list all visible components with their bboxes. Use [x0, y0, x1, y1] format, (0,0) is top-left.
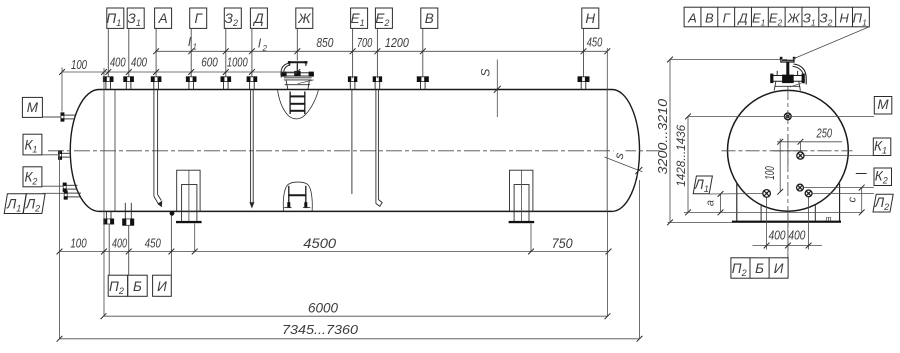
- nozzle A: [151, 76, 162, 89]
- extension for support left: [194, 224, 196, 252]
- nozzle Z1: [123, 76, 134, 89]
- svg-text:Ж: Ж: [297, 11, 312, 26]
- svg-text:100: 100: [70, 235, 87, 250]
- end view vertical centerline: [787, 62, 789, 258]
- label box G: [190, 8, 207, 77]
- svg-text:1200: 1200: [385, 35, 410, 50]
- nozzle N: [578, 76, 590, 89]
- svg-text:400: 400: [110, 54, 126, 69]
- svg-text:100: 100: [762, 166, 777, 180]
- svg-text:700: 700: [357, 35, 373, 50]
- leader L1 L2: [43, 192, 65, 194]
- leader K2: [42, 185, 63, 187]
- label box V: [421, 8, 438, 77]
- label box L2: [23, 194, 45, 214]
- nozzle E2: [373, 76, 382, 89]
- svg-text:400: 400: [131, 54, 148, 69]
- dimension 3200...3210: [656, 57, 673, 226]
- nozzle M (end view): [784, 113, 791, 120]
- svg-text:Д: Д: [736, 10, 747, 25]
- svg-text:И: И: [774, 261, 784, 276]
- nozzle P2: [103, 212, 114, 225]
- svg-text:В: В: [425, 11, 434, 26]
- svg-text:400: 400: [769, 228, 786, 243]
- dimension line row y=72: [59, 54, 300, 75]
- nozzle L2 (end view): [805, 190, 812, 197]
- head thickness callout s: [605, 146, 643, 174]
- extension tank bottom level (end view): [684, 211, 862, 213]
- leader K1: [42, 154, 59, 156]
- leader K1 (end view): [804, 155, 873, 157]
- dimension 7345...7360: [57, 322, 643, 342]
- dimension c: [846, 185, 864, 216]
- extension x=59.5: [59, 150, 61, 339]
- extension baseplate bottom level: [668, 221, 733, 223]
- end view horizontal centerline: [722, 150, 853, 152]
- label box L1: [4, 194, 26, 214]
- extension x=639.5: [639, 180, 641, 339]
- svg-text:850: 850: [316, 35, 334, 50]
- svg-text:7345...7360: 7345...7360: [282, 322, 359, 337]
- svg-text:600: 600: [201, 54, 218, 69]
- extension line x=62: [61, 68, 63, 112]
- svg-text:400: 400: [112, 235, 128, 250]
- label box E1: [351, 8, 368, 78]
- label box D: [250, 8, 267, 77]
- dip pipe from nozzle E2: [376, 89, 382, 206]
- nozzle L: [64, 190, 81, 199]
- nozzle V: [417, 76, 429, 89]
- drain fitting I: [170, 211, 175, 216]
- dip pipe from nozzle A: [154, 89, 162, 206]
- svg-text:А: А: [158, 11, 168, 26]
- svg-text:c: c: [846, 197, 858, 203]
- label box B bottom: [128, 275, 148, 296]
- label box A: [155, 8, 172, 77]
- extension weld right lower: [607, 212, 609, 317]
- tank centerline: [48, 150, 660, 152]
- svg-text:a: a: [704, 200, 716, 206]
- dimension a: [704, 191, 723, 215]
- svg-text:Б: Б: [133, 279, 142, 294]
- svg-text:2: 2: [262, 44, 268, 53]
- nozzle P1: [103, 76, 114, 89]
- nozzle B (sump): [122, 203, 134, 226]
- leader L1 (end view): [710, 193, 762, 196]
- svg-text:l: l: [188, 35, 191, 49]
- label box Zh: [296, 8, 313, 61]
- svg-text:250: 250: [816, 125, 833, 140]
- leader M: [42, 116, 60, 118]
- nozzle Z2: [221, 76, 232, 89]
- svg-text:3200...3210: 3200...3210: [656, 99, 670, 175]
- nozzle D: [247, 76, 258, 89]
- label strip A V G D E1 E2 Zh Z1 Z2 N P1: [684, 7, 869, 27]
- leader K2 (end view): [804, 187, 874, 189]
- head weld seam right: [606, 90, 608, 212]
- shell thickness callout S: [478, 60, 501, 118]
- svg-text:М: М: [877, 97, 889, 112]
- svg-text:1000: 1000: [227, 54, 248, 69]
- svg-text:1428...1436: 1428...1436: [674, 124, 688, 186]
- dimension line row y=251.5: [57, 235, 612, 254]
- nozzle G: [186, 76, 197, 89]
- dimension 6000: [101, 301, 611, 320]
- solid center cross (end view): [787, 134, 789, 165]
- dimension 1428...1436: [674, 114, 691, 216]
- nozzle K2: [63, 183, 78, 192]
- nozzle M: [61, 112, 76, 121]
- leader P2: [108, 224, 110, 275]
- svg-text:М: М: [27, 100, 39, 115]
- leader L1 box: [710, 193, 711, 195]
- label box I bottom: [153, 275, 172, 296]
- svg-text:В: В: [705, 10, 714, 25]
- nozzle K1 (end view): [797, 152, 804, 159]
- svg-text:Б: Б: [755, 261, 764, 276]
- label box Z1: [127, 8, 144, 77]
- svg-text:Н: Н: [585, 11, 595, 26]
- dimensions 400 400 (end view): [753, 198, 823, 259]
- leader from strip to manhole: [793, 27, 869, 59]
- svg-text:Д: Д: [252, 11, 264, 26]
- manhole break-out section with ladder (top): [278, 90, 319, 119]
- extension for support right: [530, 224, 532, 252]
- label box K2 right: [874, 168, 892, 186]
- dimension 100 (end view): [762, 139, 783, 195]
- short dash near K2: [856, 173, 867, 175]
- leader I: [170, 216, 172, 276]
- svg-text:l: l: [258, 37, 261, 51]
- svg-text:А: А: [687, 10, 697, 25]
- nozzle E1: [348, 76, 357, 89]
- saddle support (end view): [732, 184, 841, 224]
- svg-text:450: 450: [587, 34, 603, 49]
- leader B: [128, 226, 130, 276]
- leader M (end view): [688, 115, 875, 117]
- label box K1 right: [873, 138, 891, 156]
- svg-text:1: 1: [193, 43, 197, 52]
- label box P2 bottom: [108, 275, 128, 296]
- svg-text:И: И: [157, 279, 167, 294]
- tank shell (side view): [70, 90, 639, 212]
- svg-text:Н: Н: [839, 10, 849, 25]
- svg-text:m: m: [826, 216, 832, 223]
- nozzle L1 (end view): [763, 190, 771, 198]
- nozzle K1: [58, 151, 71, 160]
- label box M right: [874, 97, 892, 115]
- label box K1: [23, 134, 42, 155]
- manhole Zh (side view): [281, 61, 314, 89]
- svg-text:Ж: Ж: [787, 10, 801, 25]
- dimension line row y=51: [153, 34, 610, 54]
- dip pipe from nozzle D: [250, 89, 254, 207]
- label box P1: [106, 8, 123, 77]
- tank end view circle: [728, 90, 849, 211]
- extension manhole top level: [670, 59, 787, 61]
- leader L2 (end view): [812, 192, 874, 194]
- dimension 250: [777, 125, 842, 144]
- dip tube from nozzle E1: [351, 89, 353, 194]
- svg-text:S: S: [478, 69, 492, 77]
- svg-text:450: 450: [145, 235, 162, 250]
- label box K2: [23, 167, 42, 187]
- nozzle K2 (end view): [797, 184, 804, 191]
- K1 extension to dim: [799, 142, 801, 152]
- svg-text:400: 400: [788, 228, 805, 243]
- svg-text:4500: 4500: [303, 236, 336, 251]
- label box N: [582, 8, 599, 77]
- svg-text:100: 100: [71, 57, 88, 72]
- label box L1 left: [693, 176, 712, 194]
- head weld seam left: [114, 90, 116, 212]
- left saddle support: [176, 170, 202, 223]
- extension line at head weld (right): [606, 48, 608, 89]
- ladder break-out section (bottom): [283, 182, 312, 212]
- label box L2 right: [873, 194, 893, 212]
- label box E2: [375, 8, 392, 78]
- label box M: [22, 97, 42, 117]
- right saddle support: [509, 170, 535, 223]
- svg-text:6000: 6000: [308, 301, 338, 316]
- svg-text:Г: Г: [723, 10, 731, 25]
- label boxes P2 B I (end view): [731, 258, 788, 278]
- svg-text:750: 750: [552, 236, 573, 251]
- extension line x=104: [103, 68, 105, 316]
- manhole (end view): [770, 57, 806, 91]
- label box Z2: [224, 8, 241, 77]
